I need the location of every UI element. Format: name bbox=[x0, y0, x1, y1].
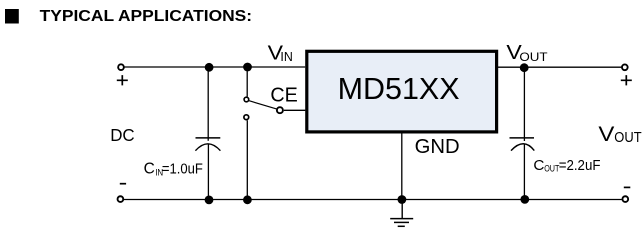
wire top rail left (input) bbox=[125, 66, 306, 68]
node junction dot Vout bbox=[520, 63, 529, 72]
svg-text:CE: CE bbox=[270, 84, 297, 107]
plus sign output bbox=[621, 75, 632, 85]
svg-text:=1.0uF: =1.0uF bbox=[162, 162, 203, 178]
wire switch pole to CE pin bbox=[284, 109, 306, 111]
svg-text:TYPICAL APPLICATIONS:: TYPICAL APPLICATIONS: bbox=[40, 8, 252, 25]
ground bbox=[390, 200, 413, 227]
switch contact circle top bbox=[244, 97, 249, 102]
svg-text:C: C bbox=[533, 157, 544, 174]
wire top rail right (output) bbox=[498, 66, 621, 68]
capacitor C_IN curved plate bbox=[195, 144, 220, 151]
node junction dot top B (switch) bbox=[243, 63, 252, 72]
switch CE wire from node bbox=[246, 67, 248, 97]
svg-text:GND: GND bbox=[415, 136, 460, 158]
section bullet square bbox=[5, 9, 19, 24]
plus sign input bbox=[117, 75, 128, 85]
label V_OUT pin bbox=[506, 42, 548, 64]
node junction dot top A (Cin) bbox=[205, 63, 214, 72]
label COUT=2.2uF bbox=[533, 157, 600, 174]
label V_IN bbox=[268, 42, 293, 64]
switch contact circle bottom bbox=[244, 115, 249, 120]
capacitor C_OUT lead bottom bbox=[523, 144, 525, 200]
terminal output + bbox=[622, 64, 628, 70]
capacitor C_IN plate bbox=[196, 137, 221, 139]
capacitor C_OUT lead top bbox=[523, 67, 525, 141]
op-amp U1 MD51XX regulator body bbox=[307, 51, 497, 132]
wire GND pin to common rail bbox=[401, 134, 403, 200]
svg-text:V: V bbox=[598, 123, 614, 146]
label CIN=1.0uF bbox=[144, 161, 203, 178]
svg-text:IN: IN bbox=[280, 49, 292, 64]
svg-text:C: C bbox=[144, 161, 155, 178]
wire switch bottom contact to common bbox=[246, 120, 248, 199]
node junction dot GND bbox=[398, 195, 407, 204]
label V_OUT right bbox=[598, 123, 641, 146]
capacitor C_OUT plate bbox=[510, 137, 535, 139]
capacitor C_IN lead bottom bbox=[207, 144, 209, 200]
minus sign input bbox=[120, 183, 126, 185]
switch lever bbox=[249, 101, 277, 109]
node junction dot Cin common bbox=[205, 196, 214, 205]
terminal output - bbox=[622, 196, 628, 202]
wire bottom rail (common) bbox=[124, 199, 622, 201]
minus sign output bbox=[624, 186, 631, 188]
terminal input + bbox=[118, 64, 124, 70]
svg-text:OUT: OUT bbox=[519, 50, 548, 64]
capacitor C_OUT curved plate bbox=[511, 144, 534, 151]
svg-text:DC: DC bbox=[110, 125, 135, 145]
svg-text:=2.2uF: =2.2uF bbox=[559, 158, 601, 174]
svg-text:OUT: OUT bbox=[614, 130, 641, 146]
node junction dot switch common bbox=[243, 195, 252, 204]
capacitor C_IN lead top bbox=[207, 67, 209, 141]
terminal input - bbox=[118, 196, 124, 202]
svg-text:OUT: OUT bbox=[544, 164, 559, 174]
node junction dot Cout common bbox=[520, 195, 529, 204]
switch pole circle bbox=[277, 107, 283, 113]
svg-text:MD51XX: MD51XX bbox=[338, 71, 460, 106]
